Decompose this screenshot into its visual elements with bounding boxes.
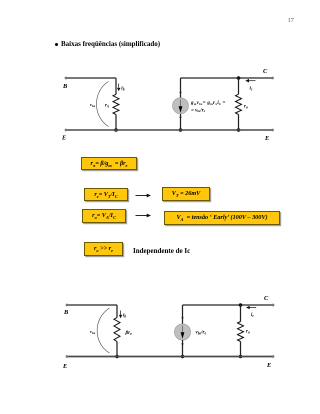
node E right label (bottom circuit): [266, 362, 271, 369]
junction at r_o bottom: [237, 128, 241, 132]
wire: r_o branch vertical bottom: [238, 115, 240, 131]
svg-text:C: C: [263, 68, 268, 75]
node E right terminal (bottom circuit): [272, 355, 275, 358]
node B label: [62, 83, 67, 90]
svg-text:ib: ib: [123, 314, 126, 319]
current arrow i_c: [245, 79, 255, 83]
svg-text:vbe/re: vbe/re: [196, 331, 207, 336]
svg-text:gmvbe= gmrπib =: gmvbe= gmrπib =: [190, 101, 226, 106]
formula box r_o >> r_e: [84, 242, 123, 256]
svg-text:= vbe/re: = vbe/re: [191, 108, 206, 113]
junction at r_o top: [237, 76, 241, 80]
note: independent of Ic: [133, 247, 190, 255]
svg-text:βre: βre: [125, 330, 133, 336]
label i_b (bottom circuit): [123, 314, 126, 319]
node E left label: [61, 135, 66, 142]
svg-text:E: E: [61, 135, 66, 142]
junction at source bottom (bottom circuit): [181, 355, 185, 359]
svg-text:C: C: [264, 295, 269, 302]
label r_pi: [105, 104, 110, 109]
current source G1: [173, 92, 189, 119]
node E right terminal: [271, 129, 274, 132]
current source value label: [190, 101, 226, 113]
node B terminal: [65, 77, 68, 80]
formula box r_pi = beta/g_m = beta*r_e: [81, 157, 137, 170]
junction at source bottom: [179, 128, 183, 132]
formula box V_A = Early voltage: [164, 211, 280, 225]
junction at r_pi bottom: [114, 128, 118, 132]
node E left terminal (bottom circuit): [66, 355, 69, 358]
wire: r_o branch vertical top (bottom circuit): [240, 305, 242, 322]
current arrow i_b (bottom circuit): [119, 311, 122, 319]
node B terminal (bottom circuit): [66, 304, 69, 307]
svg-text:ro: ro: [246, 330, 250, 335]
junction at r_o bottom (bottom circuit): [239, 355, 243, 359]
svg-text:ro: ro: [244, 104, 248, 109]
svg-text:E: E: [266, 362, 271, 369]
wire: beta-r_e branch vertical bottom: [116, 342, 118, 357]
svg-text:E: E: [264, 135, 269, 142]
node B label (bottom circuit): [63, 309, 68, 316]
label beta-r_e: [125, 330, 133, 336]
svg-text:ic: ic: [251, 313, 254, 318]
wire: top-right rail from source branch to node C: [181, 77, 273, 79]
wire: top-left rail from node B to beta-r_e branch: [67, 304, 117, 306]
current arrow i_c (bottom circuit): [246, 306, 256, 310]
label v_be: [90, 102, 96, 108]
resistor r_o: [236, 94, 242, 114]
svg-text:ic: ic: [250, 87, 253, 92]
wire: bottom rail E: [66, 129, 273, 131]
node E left terminal: [65, 129, 68, 132]
formula box V_T = 26mV: [162, 187, 210, 201]
node C terminal (bottom circuit): [272, 304, 275, 307]
wire: beta-r_e branch vertical top: [116, 305, 118, 318]
arrow from r_o box to V_A box: [136, 214, 152, 218]
label r_o: [244, 104, 248, 109]
title bullet: [55, 43, 58, 46]
wire: current source branch vertical top: [180, 78, 182, 98]
arrow from r_e box to V_T box: [136, 194, 152, 198]
svg-text:ib: ib: [121, 87, 124, 92]
svg-text:vbe: vbe: [90, 329, 96, 335]
node E right label: [264, 135, 269, 142]
current arrow i_b: [117, 84, 120, 92]
label i_b: [121, 87, 124, 92]
current source value label v_be/r_e: [196, 331, 207, 336]
wire: current source branch vertical top (bottom circuit): [182, 305, 184, 325]
resistor r_pi: [113, 94, 119, 114]
voltage arc v_be: [97, 82, 109, 127]
wire: top-left rail from node B to r_pi branch: [66, 77, 116, 79]
formula box r_o = V_A/I_C: [82, 209, 126, 223]
node E left label (bottom circuit): [62, 363, 67, 370]
label v_be (bottom circuit): [90, 329, 96, 335]
wire: top-right rail from source branch to node C (bottom circuit): [183, 304, 274, 306]
junction at r_o top (bottom circuit): [239, 303, 243, 307]
label i_c (bottom circuit): [251, 313, 254, 318]
svg-text:B: B: [62, 83, 67, 90]
wire: r_pi branch vertical top segment: [115, 78, 117, 94]
wire: bottom rail E (bottom circuit): [67, 356, 273, 358]
label r_o (bottom circuit): [246, 330, 250, 335]
svg-text:vbe: vbe: [90, 102, 96, 108]
page number: [288, 17, 295, 24]
resistor r_o (bottom circuit): [238, 322, 244, 342]
node C label (bottom circuit): [264, 295, 269, 302]
wire: current source branch vertical bottom: [180, 114, 182, 130]
resistor beta-r_e: [114, 318, 120, 342]
node C terminal: [271, 77, 274, 80]
title text: [61, 40, 160, 48]
node C label: [263, 68, 268, 75]
wire: r_pi branch vertical bottom segment: [115, 115, 117, 130]
label i_c: [250, 87, 253, 92]
wire: r_o branch vertical bottom (bottom circuit): [240, 342, 242, 357]
formula box r_e = V_T/I_C: [84, 188, 128, 201]
svg-text:rπ: rπ: [105, 104, 110, 109]
svg-text:B: B: [63, 309, 68, 316]
junction at beta-r_e bottom: [115, 355, 119, 359]
svg-text:E: E: [62, 363, 67, 370]
wire: current source branch vertical bottom (bottom circuit): [182, 340, 184, 357]
current source G2: [174, 317, 190, 345]
wire: r_o branch vertical top: [238, 78, 240, 94]
voltage arc v_be (bottom circuit): [97, 308, 109, 353]
